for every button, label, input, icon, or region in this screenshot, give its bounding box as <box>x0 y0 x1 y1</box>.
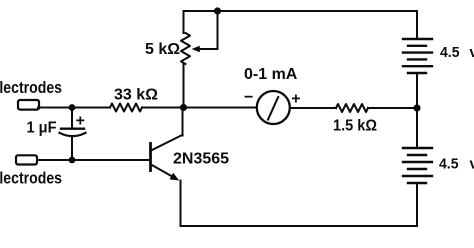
wire top rail <box>184 11 418 39</box>
transistor Q1 base bar <box>149 144 152 171</box>
svg-text:4.5: 4.5 <box>440 44 460 61</box>
transistor Q1 emitter diagonal <box>151 165 174 178</box>
svg-text:+: + <box>76 113 85 130</box>
potentiometer R1 5k zigzag <box>181 33 190 64</box>
electrode box top <box>18 100 39 110</box>
battery B1 top lead <box>416 11 418 39</box>
capacitor C1 bottom lead <box>71 137 73 161</box>
transistor Q1 emitter lead wire <box>180 181 182 227</box>
svg-text:4.5: 4.5 <box>439 156 459 173</box>
node D dot (cap bottom / base wire) <box>69 157 76 164</box>
transistor Q1 emitter arrowhead <box>170 173 180 181</box>
svg-text:0-1 mA: 0-1 mA <box>244 66 298 83</box>
capacitor C1 curved plate <box>60 133 86 136</box>
node C dot (battery rail junction) <box>413 104 420 111</box>
svg-text:v: v <box>470 156 474 173</box>
svg-text:1 μF: 1 μF <box>27 120 57 137</box>
wire bottom rail <box>181 225 418 227</box>
wire node B to meter <box>184 107 258 109</box>
capacitor C1 top lead <box>71 108 73 129</box>
wire resistor 33k to node B <box>142 107 184 109</box>
node B dot (pot bottom / collector / meter wire) <box>180 104 187 111</box>
meter M1 0-1 mA circle <box>257 91 290 124</box>
potentiometer wiper arrowhead <box>192 46 200 52</box>
svg-text:Electrodes: Electrodes <box>0 169 62 188</box>
svg-text:33 kΩ: 33 kΩ <box>114 87 158 104</box>
transistor Q1 collector diagonal <box>151 135 183 151</box>
svg-text:−: − <box>244 89 253 106</box>
electrode box bottom <box>16 155 37 164</box>
svg-text:2N3565: 2N3565 <box>173 151 229 168</box>
battery B1 bottom lead <box>416 73 418 108</box>
battery B2 4.5V plates <box>403 148 432 183</box>
transistor Q1 collector lead wire <box>182 108 184 136</box>
wire electrode1 to node A <box>38 107 72 109</box>
svg-text:v: v <box>470 44 474 61</box>
meter needle <box>268 97 278 120</box>
svg-text:Electrodes: Electrodes <box>0 78 62 97</box>
wire resistor 1.5k to node C <box>368 107 417 109</box>
potentiometer bottom lead wire <box>183 64 185 108</box>
battery B1 4.5V plates <box>403 39 432 73</box>
svg-text:1.5 kΩ: 1.5 kΩ <box>333 118 377 135</box>
battery B2 bottom lead <box>416 183 418 226</box>
node dot top (wiper tap junction) <box>214 7 221 14</box>
potentiometer wiper wire <box>199 11 218 49</box>
wire electrode2 to transistor base <box>37 159 150 161</box>
node A dot (cap top / input wire) <box>69 104 76 111</box>
wire node A to resistor 33k <box>72 107 110 109</box>
svg-text:+: + <box>291 91 300 108</box>
resistor R2 33k zigzag <box>110 104 142 112</box>
capacitor C1 straight plate <box>61 127 84 129</box>
wire meter to resistor 1.5k <box>290 107 336 109</box>
svg-text:5 kΩ: 5 kΩ <box>145 41 180 58</box>
battery B2 top lead <box>416 108 418 148</box>
resistor R3 1.5k zigzag <box>336 104 368 112</box>
